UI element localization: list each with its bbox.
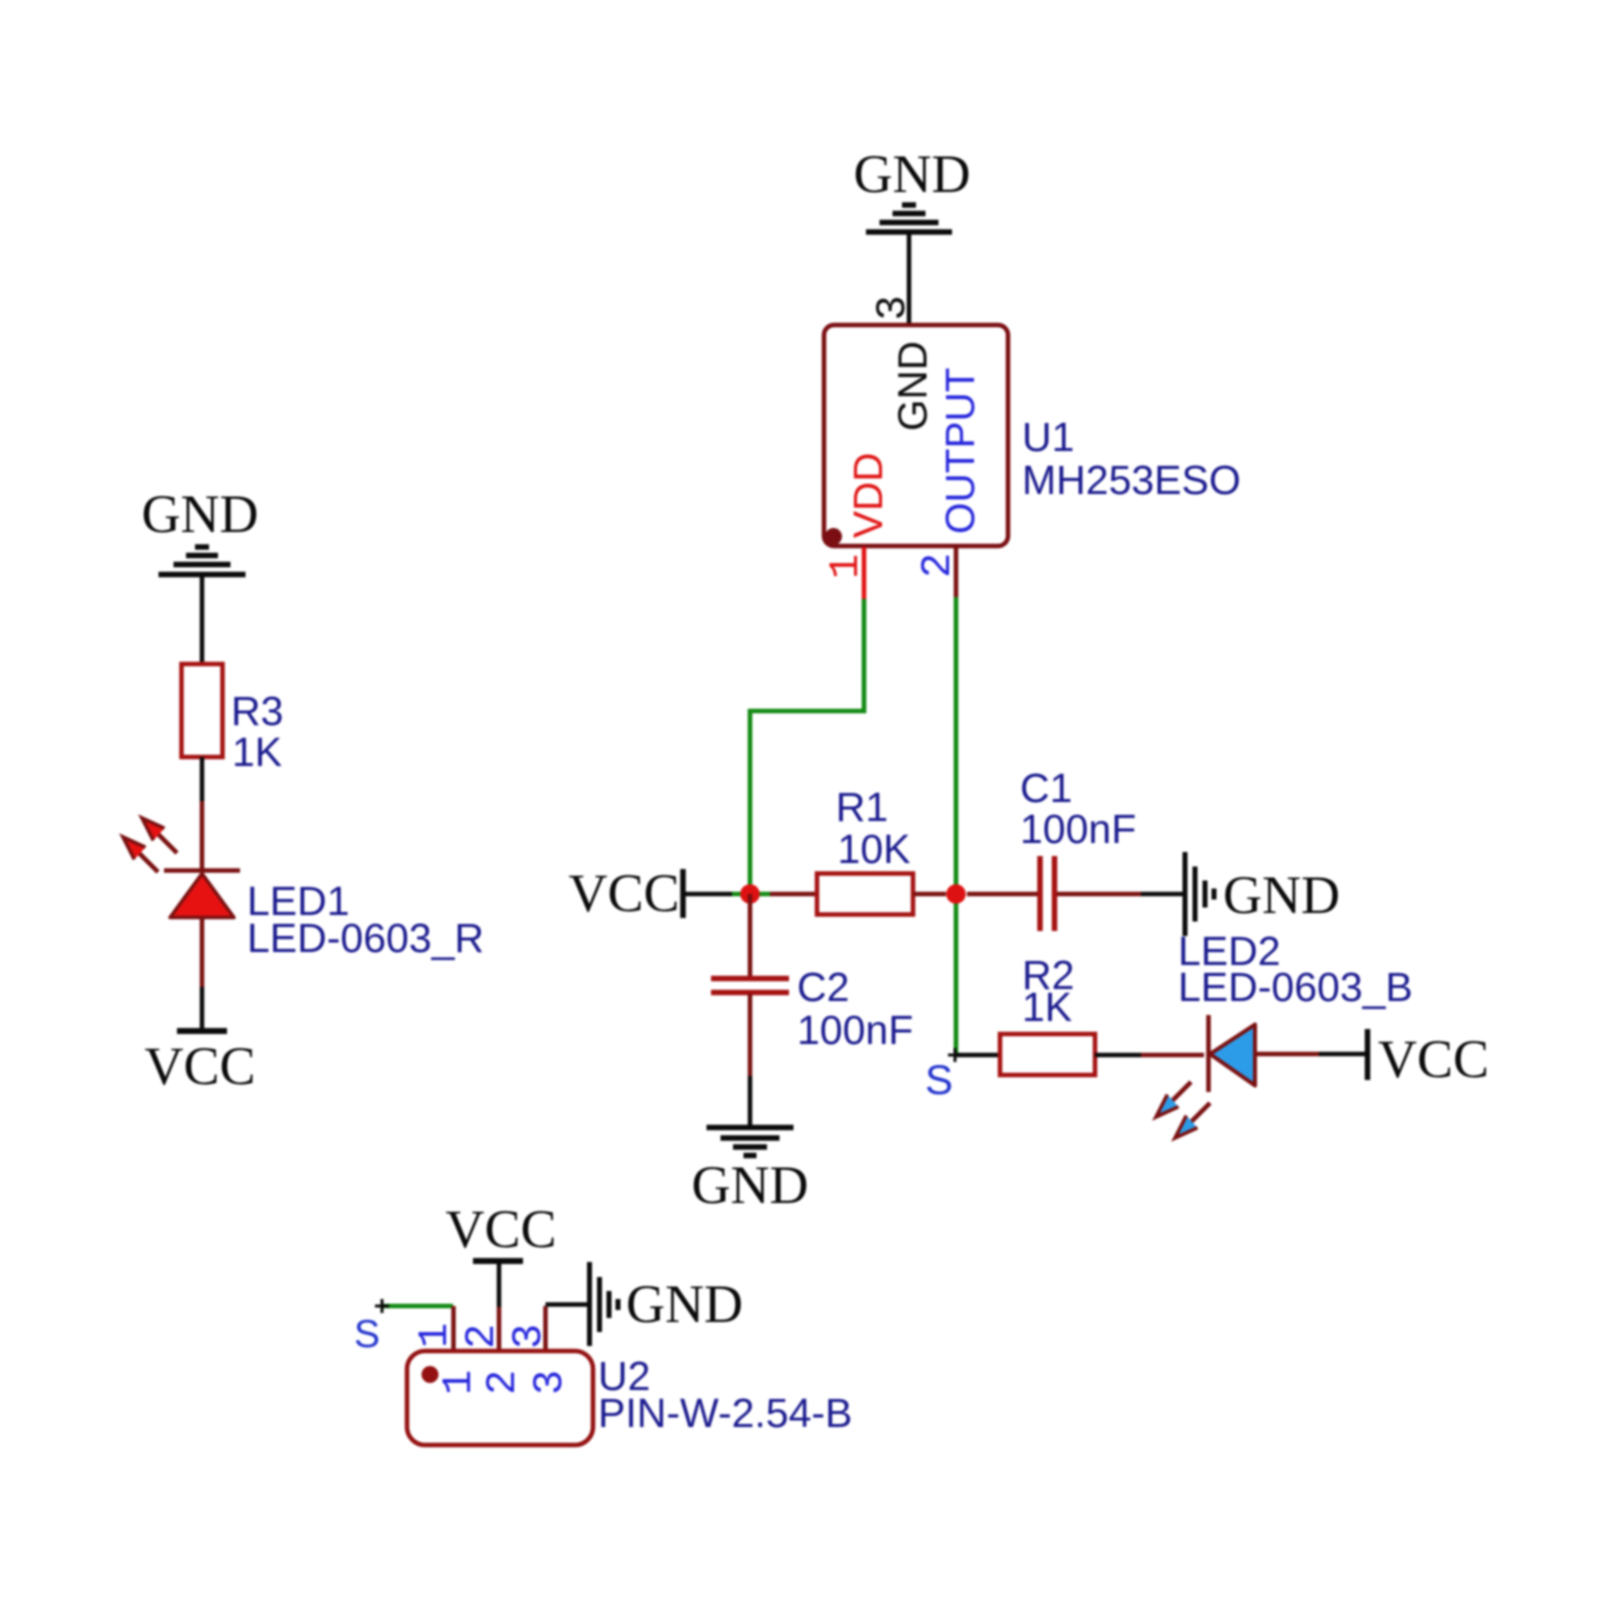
svg-text:3: 3 xyxy=(526,1370,574,1395)
wire node A to C2 xyxy=(748,894,753,976)
VCC terminal bar (middle) xyxy=(680,869,686,918)
svg-text:10K: 10K xyxy=(838,826,911,872)
svg-text:1: 1 xyxy=(411,1323,459,1348)
LED2 (blue) xyxy=(1156,1015,1255,1138)
ground symbol (right of U2) xyxy=(590,1262,619,1346)
svg-text:LED-0603_B: LED-0603_B xyxy=(1178,964,1413,1010)
resistor R1 xyxy=(817,874,913,915)
U1 pin-1 marker dot xyxy=(825,528,842,545)
svg-text:2: 2 xyxy=(479,1370,527,1395)
svg-text:VCC: VCC xyxy=(568,863,679,923)
svg-text:1: 1 xyxy=(435,1370,483,1395)
wire U2 pin 3 to GND xyxy=(546,1302,590,1307)
svg-text:VDD: VDD xyxy=(845,452,891,538)
wire node A to R1 xyxy=(770,892,817,897)
svg-text:2: 2 xyxy=(914,553,962,578)
wire R3 to LED1 xyxy=(200,757,205,801)
connector U2 body xyxy=(407,1351,593,1445)
svg-text:GND: GND xyxy=(692,1155,809,1215)
wire LED1 to VCC xyxy=(200,917,205,987)
svg-text:LED-0603_R: LED-0603_R xyxy=(247,915,484,961)
capacitor C2 xyxy=(711,979,789,993)
U2 pin 2 stub xyxy=(497,1307,502,1352)
svg-text:2: 2 xyxy=(458,1324,506,1349)
svg-text:1: 1 xyxy=(822,554,870,579)
power symbol VCC (left) xyxy=(177,1028,227,1034)
junction node A xyxy=(740,884,760,904)
wire OUTPUT net (green) xyxy=(954,597,959,1055)
LED2 light arrows xyxy=(1170,1082,1191,1103)
ground symbol (right of C1) xyxy=(1185,852,1214,936)
svg-text:100nF: 100nF xyxy=(797,1007,913,1053)
wire C1 to GND xyxy=(1057,892,1141,897)
ground symbol (left, above R3) xyxy=(159,547,246,575)
wire GND to R3 xyxy=(200,577,205,666)
wire GND to U1 pin 3 xyxy=(907,234,912,327)
svg-text:3: 3 xyxy=(869,295,917,320)
wire VCC to node (black) xyxy=(685,892,732,897)
wire S to R2 xyxy=(955,1053,1000,1058)
junction node B xyxy=(946,884,966,904)
svg-text:R3: R3 xyxy=(231,688,283,734)
svg-text:PIN-W-2.54-B: PIN-W-2.54-B xyxy=(598,1390,852,1436)
svg-text:1K: 1K xyxy=(1022,984,1072,1030)
svg-text:C1: C1 xyxy=(1020,765,1072,811)
svg-text:VCC: VCC xyxy=(1378,1029,1489,1089)
svg-text:GND: GND xyxy=(854,144,971,204)
wire R2 to LED2 xyxy=(1095,1053,1141,1058)
wire C2 to GND xyxy=(748,994,753,1076)
wire VDD net (green) xyxy=(750,599,864,894)
svg-text:MH253ESO: MH253ESO xyxy=(1022,457,1241,503)
ground symbol (top) xyxy=(866,205,952,232)
svg-text:OUTPUT: OUTPUT xyxy=(937,368,983,535)
node S cross (bottom) xyxy=(375,1299,389,1313)
resistor R2 xyxy=(1000,1034,1095,1075)
svg-text:GND: GND xyxy=(890,341,936,431)
svg-text:GND: GND xyxy=(626,1274,743,1334)
svg-text:U1: U1 xyxy=(1022,414,1074,460)
LED1 (red) xyxy=(123,818,240,918)
wire VCC to U2 pin 2 xyxy=(497,1261,502,1307)
svg-text:C2: C2 xyxy=(797,964,849,1010)
U1 pin 1 stub xyxy=(862,547,867,599)
svg-text:GND: GND xyxy=(142,484,259,544)
IC U1 body xyxy=(824,325,1008,546)
wire LED2 to VCC xyxy=(1255,1052,1319,1057)
svg-text:VCC: VCC xyxy=(445,1199,556,1259)
wire S (green, bottom) xyxy=(382,1304,453,1309)
wire R1 to node B xyxy=(913,892,946,897)
U2 pin-1 marker dot xyxy=(422,1366,439,1383)
capacitor C1 xyxy=(1040,856,1055,931)
node S cross xyxy=(948,1048,962,1062)
wire green stub at node A xyxy=(732,892,770,897)
svg-text:1K: 1K xyxy=(232,729,282,775)
ground symbol (below C2) xyxy=(707,1128,794,1156)
resistor R3 xyxy=(182,664,223,757)
svg-text:S: S xyxy=(354,1313,380,1356)
LED1 light arrows xyxy=(156,832,177,853)
VCC terminal bar (right) xyxy=(1365,1029,1371,1080)
power symbol VCC (bottom) xyxy=(473,1258,523,1264)
svg-text:S: S xyxy=(925,1056,953,1103)
svg-text:VCC: VCC xyxy=(144,1036,255,1096)
svg-text:R1: R1 xyxy=(836,784,888,830)
U1 pin 2 stub xyxy=(954,547,959,597)
U2 pin 1 stub xyxy=(451,1306,456,1352)
U2 pin 3 stub xyxy=(543,1306,548,1352)
svg-text:100nF: 100nF xyxy=(1020,806,1136,852)
wire node B to C1 xyxy=(967,892,1038,897)
svg-text:3: 3 xyxy=(505,1324,553,1349)
svg-text:GND: GND xyxy=(1223,865,1340,925)
